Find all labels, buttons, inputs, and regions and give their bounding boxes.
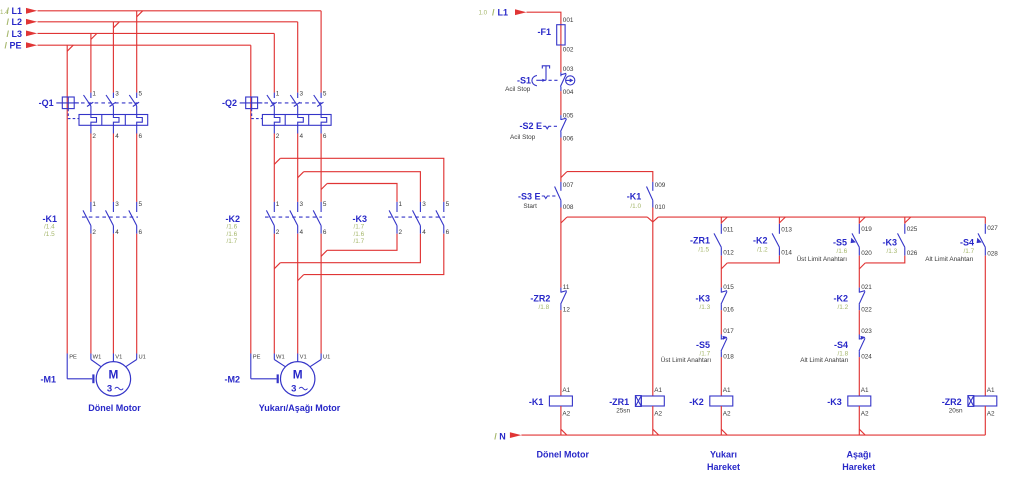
wire K2 pin6 to M2 U1 xyxy=(320,234,322,354)
svg-text:W1: W1 xyxy=(276,355,285,361)
svg-text:-F1: -F1 xyxy=(538,27,552,37)
svg-text:6: 6 xyxy=(446,229,450,236)
svg-text:020: 020 xyxy=(861,250,872,257)
aux contact K2 NO xyxy=(772,224,779,256)
label -S2 E xyxy=(519,121,542,131)
wire number 028 xyxy=(987,250,998,257)
svg-text:/1.7: /1.7 xyxy=(354,238,365,245)
svg-text:N: N xyxy=(499,431,506,441)
wire bus to S5 xyxy=(858,217,860,224)
label Start xyxy=(523,203,537,210)
svg-text:L1: L1 xyxy=(12,6,23,16)
svg-text:022: 022 xyxy=(861,307,872,314)
wire number 027 xyxy=(987,225,998,232)
wire K3 aux join xyxy=(859,256,905,269)
wire number 020 xyxy=(861,250,872,257)
svg-text:Yukarı/Aşağı Motor: Yukarı/Aşağı Motor xyxy=(259,403,341,413)
svg-text:A2: A2 xyxy=(861,411,869,418)
pin numbers Q1 xyxy=(92,90,142,140)
svg-text:013: 013 xyxy=(781,227,792,234)
node PE xyxy=(5,41,38,51)
svg-text:A2: A2 xyxy=(723,411,731,418)
svg-text:-K3: -K3 xyxy=(882,238,897,248)
pin numbers Q2 xyxy=(276,90,327,140)
wire PE bus xyxy=(38,45,251,51)
label -M2 xyxy=(225,375,241,385)
svg-text:009: 009 xyxy=(655,182,666,189)
svg-text:-K1: -K1 xyxy=(42,214,57,224)
pin A1 K2 xyxy=(723,387,731,394)
svg-text:007: 007 xyxy=(563,182,574,189)
coil K3 xyxy=(848,396,871,406)
svg-text:/: / xyxy=(7,29,10,39)
label Yukari/Asagi Motor xyxy=(259,403,341,413)
pin A2 K3 xyxy=(861,411,869,418)
wire PE drop to M1 xyxy=(66,45,68,353)
svg-text:M: M xyxy=(108,367,118,381)
svg-text:Hareket: Hareket xyxy=(842,462,875,472)
fuse F1 xyxy=(557,25,565,45)
svg-text:018: 018 xyxy=(723,354,734,361)
wire L2 drop to Q1 pin 3 xyxy=(112,22,114,93)
label Donel Motor function xyxy=(537,450,590,460)
motor M1 xyxy=(67,354,137,396)
pin numbers K2 xyxy=(276,201,327,236)
svg-text:Acil Stop: Acil Stop xyxy=(510,134,536,141)
svg-text:015: 015 xyxy=(723,284,734,291)
emergency stop S1 xyxy=(532,66,575,91)
svg-text:1.4: 1.4 xyxy=(0,9,9,16)
svg-text:/1.6: /1.6 xyxy=(227,231,238,238)
svg-text:-K3: -K3 xyxy=(352,214,367,224)
pin numbers K3 xyxy=(399,201,450,236)
wire number 004 xyxy=(563,89,574,96)
label -K2 coil xyxy=(689,397,704,407)
svg-text:/1.4: /1.4 xyxy=(44,224,55,231)
wire number 010 xyxy=(655,204,666,211)
svg-text:PE: PE xyxy=(10,41,22,51)
pin A1 ZR2 xyxy=(987,387,995,394)
wire number 007 xyxy=(563,182,574,189)
wire number 12 xyxy=(563,307,571,314)
wire L1 drop to Q1 pin 5 xyxy=(136,11,138,93)
wire N bus xyxy=(521,434,985,436)
aux contact K3 NC xyxy=(721,288,727,311)
svg-text:-S3 E: -S3 E xyxy=(518,192,541,202)
svg-text:/1.8: /1.8 xyxy=(539,304,550,311)
svg-text:L2: L2 xyxy=(12,17,23,27)
svg-text:4: 4 xyxy=(422,229,426,236)
wire number 015 xyxy=(723,284,734,291)
pin A2 K1 xyxy=(562,411,570,418)
svg-text:Dönel Motor: Dönel Motor xyxy=(88,403,141,413)
svg-text:/1.5: /1.5 xyxy=(44,231,55,238)
svg-text:4: 4 xyxy=(300,229,304,236)
wire number 011 xyxy=(723,227,734,234)
label -S3 E xyxy=(518,192,541,202)
wire number 022 xyxy=(861,307,872,314)
wire number 001 xyxy=(563,17,574,24)
svg-text:/1.7: /1.7 xyxy=(354,224,365,231)
label -K1 aux xyxy=(627,192,642,210)
wire crossover bottom 3 xyxy=(298,234,444,281)
aux contact K2 NC xyxy=(859,288,865,311)
wire K2 pin2 to M2 W1 xyxy=(273,234,275,354)
wire number 021 xyxy=(861,284,872,291)
svg-text:2: 2 xyxy=(276,229,280,236)
label Ust Limit Anahtari upper xyxy=(797,255,848,263)
svg-text:004: 004 xyxy=(563,89,574,96)
wire K2 NC to S4 NC xyxy=(858,310,860,334)
svg-text:-K2: -K2 xyxy=(689,397,704,407)
svg-text:1: 1 xyxy=(92,90,96,97)
label -S5 NC xyxy=(696,340,711,357)
svg-text:3: 3 xyxy=(107,384,112,395)
label -K3 NC xyxy=(695,293,710,311)
svg-text:1: 1 xyxy=(399,201,403,208)
pin A2 K2 xyxy=(723,411,731,418)
svg-text:4: 4 xyxy=(115,229,119,236)
wire crossover top 1 xyxy=(280,158,444,202)
start button S3 xyxy=(542,182,561,208)
wire Q1 pin2 to K1 pin1 xyxy=(90,134,92,202)
label -ZR2 coil xyxy=(942,397,963,415)
wire L3 drop to Q1 pin 1 xyxy=(90,33,92,92)
svg-text:3: 3 xyxy=(291,384,296,395)
svg-text:1: 1 xyxy=(276,90,280,97)
label Yukari Hareket xyxy=(707,450,740,472)
wire K2 pin4 to M2 V1 xyxy=(297,234,299,354)
wire crossover bottom 1 xyxy=(321,234,397,257)
limit switch S4 NC xyxy=(859,335,865,358)
svg-text:25sn: 25sn xyxy=(616,407,630,414)
svg-text:014: 014 xyxy=(781,249,792,256)
svg-text:11: 11 xyxy=(563,284,570,291)
wire number 014 xyxy=(781,249,792,256)
wire L2 drop to Q2 pin 3 xyxy=(297,22,299,93)
wire ZR1 coil to N xyxy=(653,406,659,435)
label -K2 NC xyxy=(833,293,848,311)
coil ZR2 timer xyxy=(968,396,997,407)
svg-text:/: / xyxy=(5,41,8,51)
label -ZR1 coil xyxy=(609,397,630,415)
label Ust Limit Anahtari lower xyxy=(661,356,712,364)
label Alt Limit Anahtari upper xyxy=(925,256,974,263)
label Acil Stop S1 xyxy=(505,86,531,93)
label -K3 aux xyxy=(882,238,897,255)
svg-text:L1: L1 xyxy=(498,7,509,17)
svg-text:/1.0: /1.0 xyxy=(630,203,641,210)
svg-text:/1.7: /1.7 xyxy=(227,238,238,245)
wire main rung bus xyxy=(567,217,985,223)
wire ZR2 to K1 coil xyxy=(560,310,562,396)
timer contact ZR2 NC xyxy=(561,288,567,311)
wire number 018 xyxy=(723,354,734,361)
svg-text:5: 5 xyxy=(323,201,327,208)
limit switch S5 NC xyxy=(721,335,727,358)
node L2 xyxy=(7,17,38,27)
svg-text:A1: A1 xyxy=(562,387,570,394)
coil K2 xyxy=(710,396,733,406)
wire L3 bus xyxy=(38,33,275,39)
svg-text:011: 011 xyxy=(723,227,734,234)
wire L1 to F1 xyxy=(527,12,561,25)
svg-text:2: 2 xyxy=(92,133,96,140)
svg-text:005: 005 xyxy=(563,112,574,119)
svg-text:/1.6: /1.6 xyxy=(354,231,365,238)
pin A1 K1 xyxy=(562,387,570,394)
node L1 control xyxy=(479,7,527,17)
svg-text:5: 5 xyxy=(139,201,143,208)
wire number 012 xyxy=(723,249,734,256)
svg-text:V1: V1 xyxy=(300,355,307,361)
wire bus to ZR1 contact xyxy=(720,217,722,224)
wire number 024 xyxy=(861,354,872,361)
svg-text:A1: A1 xyxy=(987,387,995,394)
svg-text:1: 1 xyxy=(276,201,280,208)
label -F1 xyxy=(538,27,552,37)
label -S1 xyxy=(517,76,531,86)
svg-text:/: / xyxy=(492,7,495,17)
wire number 006 xyxy=(563,135,574,142)
svg-text:V1: V1 xyxy=(115,355,122,361)
svg-text:001: 001 xyxy=(563,17,574,24)
wire number 016 xyxy=(723,307,734,314)
svg-text:Dönel Motor: Dönel Motor xyxy=(537,450,590,460)
wire Q2 pin4 down xyxy=(298,134,304,202)
contactor K2 power contacts xyxy=(265,202,322,234)
wire L1 bus xyxy=(38,11,322,17)
svg-text:Üst Limit Anahtarı: Üst Limit Anahtarı xyxy=(661,356,712,364)
svg-text:025: 025 xyxy=(907,226,918,233)
label -K1 power xyxy=(42,214,57,238)
wire number 013 xyxy=(781,227,792,234)
coil ZR1 timer xyxy=(635,396,664,407)
wire K3 NC to S5 NC xyxy=(720,310,722,334)
wire Q2 pin2 down xyxy=(274,134,280,202)
label -Q2 xyxy=(222,98,237,108)
wire crossover bottom 2 xyxy=(274,234,420,269)
svg-text:-Q1: -Q1 xyxy=(39,98,54,108)
wire K1 aux to junction xyxy=(652,208,654,397)
wire number 019 xyxy=(861,226,872,233)
svg-text:027: 027 xyxy=(987,225,998,232)
svg-text:-K2: -K2 xyxy=(753,236,768,246)
svg-text:002: 002 xyxy=(563,47,574,54)
wire bus to K2 aux xyxy=(778,217,780,224)
node L1 xyxy=(0,6,37,16)
svg-text:A2: A2 xyxy=(987,411,995,418)
svg-text:/1.3: /1.3 xyxy=(887,248,898,255)
wire parallel branch top xyxy=(567,172,653,182)
terminal labels M2 xyxy=(253,355,331,361)
svg-text:-S4: -S4 xyxy=(834,340,848,350)
svg-text:2: 2 xyxy=(399,229,403,236)
svg-text:6: 6 xyxy=(323,133,327,140)
label -S4 NO xyxy=(960,238,975,255)
svg-text:Start: Start xyxy=(523,203,537,210)
label -ZR1 contact xyxy=(690,236,710,254)
svg-text:20sn: 20sn xyxy=(949,407,963,414)
svg-text:U1: U1 xyxy=(323,355,330,361)
svg-text:-ZR1: -ZR1 xyxy=(690,236,710,246)
wire number 008 xyxy=(563,204,574,211)
wire K2 aux join xyxy=(721,256,779,269)
label Acil Stop S2 xyxy=(510,134,536,141)
svg-text:4: 4 xyxy=(115,133,119,140)
svg-text:-S5: -S5 xyxy=(833,238,847,248)
svg-text:5: 5 xyxy=(139,90,143,97)
wire number 025 xyxy=(907,226,918,233)
svg-text:A2: A2 xyxy=(654,411,662,418)
wire Q1 pin6 to K1 pin5 xyxy=(136,134,138,202)
coil K1 xyxy=(549,396,572,406)
svg-text:012: 012 xyxy=(723,249,734,256)
label -K1 coil xyxy=(529,397,544,407)
svg-text:019: 019 xyxy=(861,226,872,233)
svg-text:5: 5 xyxy=(323,90,327,97)
svg-text:/1.5: /1.5 xyxy=(698,247,709,254)
wire S4 to ZR2 coil xyxy=(984,256,986,396)
wire ZR2 coil to N xyxy=(984,406,986,435)
wire S4 to K3 coil xyxy=(858,357,860,396)
svg-text:Alt Limit Anahtarı: Alt Limit Anahtarı xyxy=(800,357,849,364)
svg-text:-K3: -K3 xyxy=(827,397,842,407)
circuit breaker Q1 xyxy=(56,93,147,134)
svg-text:028: 028 xyxy=(987,250,998,257)
svg-text:-K2: -K2 xyxy=(833,293,848,303)
pin A1 ZR1 xyxy=(654,387,662,394)
wire bus to K3 aux xyxy=(904,217,906,224)
limit switch S5 NO xyxy=(851,224,860,256)
label -S5 NO xyxy=(833,238,848,255)
wire bus corner to S4 xyxy=(984,217,986,224)
wire S1 to S2 xyxy=(560,91,562,115)
svg-text:A2: A2 xyxy=(562,411,570,418)
label -ZR2 contact xyxy=(530,293,550,311)
emergency stop switch S2 xyxy=(543,115,566,137)
wire K3 coil to N xyxy=(859,406,865,435)
svg-text:2: 2 xyxy=(92,229,96,236)
label -Q1 xyxy=(39,98,54,108)
node L3 xyxy=(7,29,38,39)
wire S2 to S3 xyxy=(561,138,567,182)
wire number 017 xyxy=(723,328,734,335)
wire S5 to K2 coil xyxy=(720,357,722,396)
svg-text:12: 12 xyxy=(563,307,571,314)
svg-text:/1.7: /1.7 xyxy=(964,248,975,255)
terminal labels M1 xyxy=(69,355,146,361)
wire number 002 xyxy=(563,47,574,54)
svg-text:016: 016 xyxy=(723,307,734,314)
label -K3 power xyxy=(352,214,367,245)
contactor K1 power contacts xyxy=(82,202,138,234)
motor M2 xyxy=(251,354,321,396)
wire crossover top 3 xyxy=(327,184,397,202)
wire Q1 pin4 to K1 pin3 xyxy=(112,134,114,202)
label -K2 power xyxy=(225,214,240,245)
node N xyxy=(494,431,521,441)
svg-text:/1.2: /1.2 xyxy=(838,304,849,311)
wire L2 bus xyxy=(38,22,298,28)
aux contact K3 NO xyxy=(898,224,905,256)
svg-text:3: 3 xyxy=(300,201,304,208)
svg-text:008: 008 xyxy=(563,204,574,211)
svg-text:6: 6 xyxy=(139,133,143,140)
timer contact ZR1 NO xyxy=(714,224,721,256)
svg-text:3: 3 xyxy=(300,90,304,97)
wire number 005 xyxy=(563,112,574,119)
wire L3 drop to Q2 pin 1 xyxy=(273,33,275,92)
svg-text:6: 6 xyxy=(323,229,327,236)
label Asagi Hareket xyxy=(842,450,875,472)
pin A2 ZR2 xyxy=(987,411,995,418)
label Donel Motor left xyxy=(88,403,141,413)
svg-text:Yukarı: Yukarı xyxy=(710,450,737,460)
svg-text:026: 026 xyxy=(907,250,918,257)
wire Q2 pin6 down xyxy=(321,134,327,202)
svg-text:010: 010 xyxy=(655,204,666,211)
wire K1 pin6 to M1 U1 xyxy=(136,234,138,354)
svg-text:/1.2: /1.2 xyxy=(757,247,768,254)
wire ZR1 contact to K3 NC xyxy=(720,256,722,288)
svg-text:021: 021 xyxy=(861,284,872,291)
svg-text:/: / xyxy=(494,431,497,441)
svg-text:-K1: -K1 xyxy=(529,397,544,407)
svg-text:PE: PE xyxy=(253,355,261,361)
wire number 009 xyxy=(655,182,666,189)
svg-text:5: 5 xyxy=(446,201,450,208)
svg-text:Üst Limit Anahtarı: Üst Limit Anahtarı xyxy=(797,255,848,263)
svg-text:003: 003 xyxy=(563,66,574,73)
svg-text:-M1: -M1 xyxy=(41,375,57,385)
svg-text:L3: L3 xyxy=(12,29,23,39)
svg-text:A1: A1 xyxy=(861,387,869,394)
svg-text:-ZR2: -ZR2 xyxy=(942,397,962,407)
wire number 003 xyxy=(563,66,574,73)
svg-text:PE: PE xyxy=(69,355,77,361)
wire K1 pin2 to M1 W1 xyxy=(90,234,92,354)
wire F1 to S1 xyxy=(560,45,562,72)
svg-text:/1.3: /1.3 xyxy=(700,304,711,311)
svg-text:U1: U1 xyxy=(139,355,146,361)
pin numbers K1 xyxy=(92,201,142,236)
wire S3 to bus xyxy=(561,208,567,288)
pin A1 K3 xyxy=(861,387,869,394)
label -M1 xyxy=(41,375,57,385)
wire L1 drop to Q2 pin 5 xyxy=(320,11,322,93)
svg-text:-K3: -K3 xyxy=(695,293,710,303)
svg-text:-Q2: -Q2 xyxy=(222,98,237,108)
svg-text:-K2: -K2 xyxy=(225,214,240,224)
svg-text:1: 1 xyxy=(92,201,96,208)
svg-text:-S5: -S5 xyxy=(696,340,710,350)
svg-text:4: 4 xyxy=(300,133,304,140)
svg-text:024: 024 xyxy=(861,354,872,361)
svg-text:Aşağı: Aşağı xyxy=(847,450,872,460)
svg-text:3: 3 xyxy=(115,201,119,208)
svg-text:2: 2 xyxy=(276,133,280,140)
wire number 026 xyxy=(907,250,918,257)
svg-text:-K1: -K1 xyxy=(627,192,642,202)
wire S5 to K2 NC xyxy=(858,256,860,288)
svg-text:-S4: -S4 xyxy=(960,238,974,248)
wire PE drop to M2 xyxy=(250,45,252,353)
svg-text:Hareket: Hareket xyxy=(707,462,740,472)
svg-text:A1: A1 xyxy=(654,387,662,394)
label Alt Limit Anahtari lower xyxy=(800,357,849,364)
svg-text:Acil Stop: Acil Stop xyxy=(505,86,531,93)
